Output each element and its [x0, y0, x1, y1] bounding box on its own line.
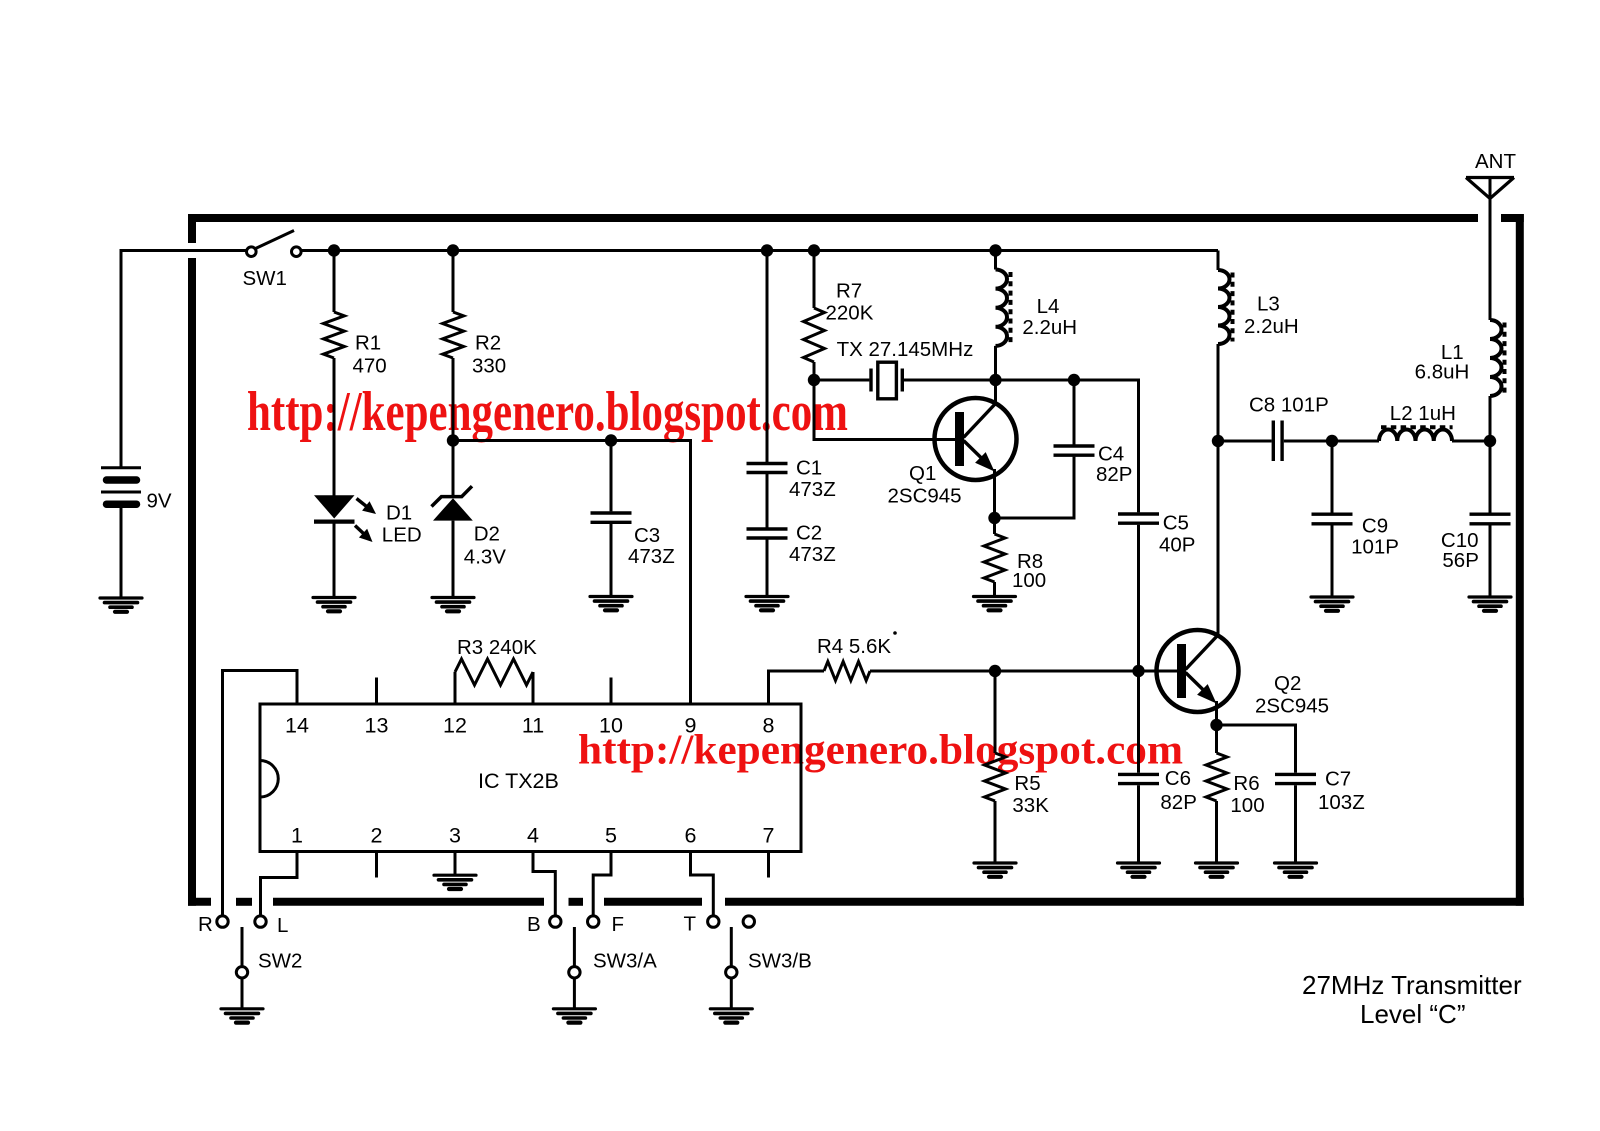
junction L4-collector node	[989, 374, 1001, 386]
svg-text:R1: R1	[355, 332, 381, 355]
antenna ANT	[1466, 150, 1516, 199]
svg-text:2SC945: 2SC945	[1255, 695, 1329, 718]
capacitor C10 56P	[1441, 514, 1511, 572]
wire C9 node down	[1331, 441, 1334, 513]
contact B	[527, 913, 561, 936]
ground (C6)	[1118, 863, 1160, 877]
contact L	[255, 914, 289, 937]
wire C8 node to C8	[1218, 440, 1272, 443]
wire emitter node to C4 bottom	[995, 457, 1075, 518]
wire C7 to ground	[1294, 785, 1297, 863]
wire L4 to collector node	[994, 346, 997, 380]
LED D1	[314, 495, 422, 546]
contact T	[684, 913, 720, 936]
wire R6 to ground	[1215, 801, 1218, 863]
svg-text:Level “C”: Level “C”	[1360, 999, 1465, 1029]
wire pin 10 stub	[610, 678, 613, 705]
svg-text:103Z: 103Z	[1318, 791, 1365, 814]
svg-text:7: 7	[763, 824, 775, 848]
svg-text:L2 1uH: L2 1uH	[1390, 402, 1456, 425]
junction C4 top node	[1068, 374, 1080, 386]
junction R2-D2-C3 node	[447, 434, 459, 446]
svg-text:14: 14	[285, 714, 309, 738]
contact R	[198, 913, 228, 936]
wire C9 to ground	[1331, 525, 1334, 597]
wire node to crystal	[814, 379, 869, 382]
svg-text:http://kepengenero.blogspot.co: http://kepengenero.blogspot.com	[578, 728, 1183, 774]
svg-text:82P: 82P	[1160, 791, 1196, 814]
wire pin 13 stub	[375, 678, 378, 705]
svg-text:473Z: 473Z	[789, 478, 836, 501]
wire emitter node to C7	[1217, 725, 1296, 773]
wire C6 to ground	[1137, 785, 1140, 863]
svg-text:1: 1	[291, 824, 303, 848]
svg-text:473Z: 473Z	[628, 545, 675, 568]
switch SW1	[243, 231, 302, 291]
svg-text:2.2uH: 2.2uH	[1022, 316, 1077, 339]
junction rail-R2	[447, 244, 459, 256]
ground (C9)	[1311, 597, 1353, 611]
svg-text:330: 330	[472, 355, 506, 378]
svg-text:F: F	[612, 913, 625, 936]
svg-text:6.8uH: 6.8uH	[1415, 361, 1470, 384]
svg-text:12: 12	[443, 714, 467, 738]
svg-text:C5: C5	[1163, 512, 1189, 535]
junction C5-C6-R4 node	[1132, 665, 1144, 677]
capacitor C6 82P	[1118, 767, 1197, 814]
junction rail-R1	[328, 244, 340, 256]
wire IC pin 8 to R4	[769, 671, 825, 704]
junction R7-crystal-Q1base	[808, 374, 820, 386]
wire rail corner to L3	[1217, 251, 1220, 271]
wire antenna node to C10	[1489, 441, 1492, 513]
ground (IC pin 3)	[434, 875, 476, 889]
svg-text:B: B	[527, 913, 541, 936]
wire pin 2 stub	[375, 852, 378, 878]
svg-text:473Z: 473Z	[789, 543, 836, 566]
svg-text:9: 9	[685, 714, 697, 738]
junction rail-R7	[808, 244, 820, 256]
svg-text:11: 11	[522, 714, 544, 738]
svg-text:2.2uH: 2.2uH	[1244, 315, 1299, 338]
svg-text:C6: C6	[1165, 767, 1191, 790]
wire battery negative to ground	[120, 504, 123, 598]
svg-text:101P: 101P	[1351, 536, 1399, 559]
resistor R3 240K	[455, 636, 537, 685]
svg-text:Q2: Q2	[1274, 672, 1301, 695]
resistor R2 330	[443, 312, 507, 378]
battery BT1 9V	[101, 468, 172, 513]
svg-text:TX 27.145MHz: TX 27.145MHz	[837, 338, 974, 361]
inductor L1 6.8uH	[1415, 320, 1505, 396]
junction rail-C1	[761, 244, 773, 256]
ground (C3)	[590, 597, 632, 611]
ground (D2)	[432, 598, 474, 612]
svg-text:R: R	[198, 913, 213, 936]
resistor R7 220K	[804, 280, 874, 363]
wire R5 to ground	[994, 801, 997, 863]
wire C10 to ground	[1489, 525, 1492, 597]
svg-text:6: 6	[685, 824, 697, 848]
ground (SW3/A)	[553, 1009, 595, 1023]
wire D1 to ground	[333, 522, 336, 598]
wire pin 5 to contact F	[593, 852, 611, 916]
svg-text:5: 5	[605, 824, 617, 848]
junction C8-C9-L2	[1326, 435, 1338, 447]
wire collector node to C4 node	[996, 379, 1075, 382]
wire battery positive to SW1	[121, 251, 246, 468]
wire pin 11 to R3	[532, 672, 535, 704]
svg-text:100: 100	[1012, 569, 1046, 592]
capacitor C4 82P	[1054, 443, 1133, 487]
capacitor C9 101P	[1312, 514, 1399, 558]
wire pin 12 to R3	[454, 672, 457, 704]
svg-text:C2: C2	[796, 522, 822, 545]
inductor L3 2.2uH	[1218, 270, 1299, 344]
svg-text:9V: 9V	[147, 490, 172, 513]
wire C1 to C2	[766, 474, 769, 528]
title text	[1302, 970, 1522, 1029]
svg-text:56P: 56P	[1442, 549, 1478, 572]
svg-text:C3: C3	[634, 524, 660, 547]
svg-text:R3 240K: R3 240K	[457, 636, 537, 659]
svg-text:220K: 220K	[826, 302, 874, 325]
wire C3 to ground	[610, 524, 613, 597]
wire rail to R2	[452, 251, 455, 313]
wire Q2 emitter to node	[1215, 701, 1218, 725]
svg-text:C9: C9	[1362, 515, 1388, 538]
wire L3 to C8 node	[1217, 344, 1220, 441]
junction rail-L4	[989, 244, 1001, 256]
wire R7 to crystal node	[813, 362, 816, 380]
junction L2-L1-C10	[1484, 435, 1496, 447]
wire C2 to ground	[766, 540, 769, 597]
wire pin 1 to contact L	[261, 852, 298, 916]
svg-text:SW2: SW2	[258, 950, 302, 973]
svg-text:4.3V: 4.3V	[464, 546, 506, 569]
IC U1 top pin labels	[285, 714, 774, 738]
svg-text:C8 101P: C8 101P	[1249, 394, 1329, 417]
wire node to C6	[1137, 671, 1140, 773]
svg-text:13: 13	[365, 714, 389, 738]
svg-text:SW1: SW1	[243, 267, 287, 290]
svg-text:Q1: Q1	[909, 462, 936, 485]
wire Q1 base	[814, 380, 956, 440]
ground (D1)	[313, 598, 355, 612]
wire C4 node to C5	[1074, 380, 1139, 512]
svg-text:33K: 33K	[1012, 794, 1049, 817]
junction Q1 emitter node	[988, 512, 1000, 524]
wire node to C3	[610, 441, 613, 512]
wire C5 to R4 node	[1137, 525, 1140, 671]
IC U1 TX2B body	[260, 704, 801, 852]
svg-text:http://kepengenero.blogspot.co: http://kepengenero.blogspot.com	[247, 381, 848, 443]
capacitor C7 103Z	[1275, 768, 1365, 815]
svg-text:R5: R5	[1014, 772, 1040, 795]
wire Q1 emitter to node	[993, 469, 996, 518]
capacitor C3 473Z	[591, 513, 675, 568]
svg-text:R6: R6	[1233, 772, 1259, 795]
svg-text:R2: R2	[475, 332, 501, 355]
junction L3-C8-Q2collector	[1212, 435, 1224, 447]
junction Q2 emitter node	[1210, 719, 1222, 731]
wire pin 3 to ground	[454, 852, 457, 876]
ground (SW3/B)	[710, 1009, 752, 1023]
crystal X1 TX 27.145MHz	[837, 338, 974, 399]
svg-text:SW3/B: SW3/B	[748, 950, 812, 973]
wire R2 to node D2	[452, 358, 455, 441]
resistor R5 33K	[985, 671, 1050, 817]
capacitor C1 473Z	[747, 457, 836, 502]
stray mark	[893, 631, 897, 635]
wire pin 14 to contact R	[223, 671, 298, 916]
svg-text:100: 100	[1230, 794, 1264, 817]
wire +9V rail	[301, 249, 1218, 252]
resistor R6 100	[1206, 725, 1265, 817]
transistor Q2 2SC945	[1157, 630, 1330, 718]
ground (R5)	[974, 863, 1016, 877]
svg-text:L4: L4	[1037, 295, 1060, 318]
switch SW3/B	[726, 927, 812, 1009]
svg-text:ANT: ANT	[1475, 150, 1516, 173]
wire C8 to C9 node	[1284, 440, 1332, 443]
wire L1 to antenna node	[1489, 396, 1492, 441]
ground (C2)	[746, 597, 788, 611]
wire D2 node to IC pin 9	[453, 441, 691, 705]
wire rail to R7	[813, 251, 816, 309]
switch SW2	[236, 927, 302, 1009]
svg-text:IC TX2B: IC TX2B	[478, 769, 559, 793]
svg-text:4: 4	[527, 824, 539, 848]
wire rail to L4	[994, 251, 997, 270]
svg-text:T: T	[684, 913, 697, 936]
switch SW3/A	[569, 927, 657, 1009]
contact spare	[743, 916, 754, 927]
svg-text:L3: L3	[1257, 293, 1280, 316]
ground (R6)	[1196, 863, 1238, 877]
resistor R4 5.6K	[817, 635, 891, 681]
resistor R1 470	[324, 312, 387, 378]
svg-text:R4 5.6K: R4 5.6K	[817, 635, 891, 658]
wire L2 to antenna node	[1452, 440, 1490, 443]
svg-text:2SC945: 2SC945	[888, 485, 962, 508]
svg-text:SW3/A: SW3/A	[593, 950, 657, 973]
svg-text:L: L	[277, 914, 288, 937]
inductor L2 1uH	[1379, 402, 1456, 441]
wire C8 node down to Q2 collector	[1217, 441, 1220, 636]
wire D2 to ground	[452, 521, 455, 598]
svg-text:27MHz Transmitter: 27MHz Transmitter	[1302, 970, 1522, 1000]
ground (C10)	[1469, 597, 1511, 611]
ground (SW2)	[221, 1009, 263, 1023]
wire pin 7 stub	[767, 852, 770, 878]
svg-text:C7: C7	[1325, 768, 1351, 791]
resistor R8 100	[984, 518, 1046, 592]
svg-text:C1: C1	[796, 457, 822, 480]
svg-text:10: 10	[599, 714, 623, 738]
svg-text:R7: R7	[836, 280, 862, 303]
wire pin 4 to contact B	[533, 852, 555, 916]
svg-text:D1: D1	[386, 501, 412, 524]
capacitor C5 40P	[1118, 512, 1195, 557]
wire C9 node to L2	[1332, 440, 1379, 443]
svg-text:8: 8	[763, 714, 775, 738]
ground (battery)	[100, 598, 142, 612]
svg-text:82P: 82P	[1096, 463, 1132, 486]
wire antenna to L1	[1489, 178, 1492, 321]
svg-text:470: 470	[353, 355, 387, 378]
wire rail to R1	[333, 251, 336, 313]
IC U1 bottom pin labels	[291, 824, 774, 848]
svg-text:40P: 40P	[1159, 534, 1195, 557]
wire rail to C1	[766, 251, 769, 463]
capacitor C8 101P	[1249, 394, 1329, 462]
wire pin 6 to contact T	[691, 852, 714, 916]
svg-text:2: 2	[371, 824, 383, 848]
wire R1 to D1	[333, 358, 336, 496]
svg-text:D2: D2	[474, 523, 500, 546]
inductor L4 2.2uH	[996, 270, 1078, 346]
wire R8 to ground	[993, 582, 996, 597]
ground (R8)	[974, 597, 1016, 611]
wire R4 to Q2 base	[870, 670, 1177, 673]
junction C3 top	[605, 434, 617, 446]
svg-text:LED: LED	[382, 524, 422, 547]
wire crystal to L4 node	[904, 379, 996, 382]
capacitor C2 473Z	[747, 522, 836, 567]
wire C4 node to C4 top	[1073, 380, 1076, 446]
wire node to D2	[452, 441, 455, 499]
transistor Q1 2SC945	[888, 380, 1017, 508]
junction R4-R5	[989, 665, 1001, 677]
svg-text:3: 3	[449, 824, 461, 848]
contact F	[588, 913, 625, 936]
ground (C7)	[1275, 863, 1317, 877]
zener diode D2 4.3V	[432, 486, 507, 568]
